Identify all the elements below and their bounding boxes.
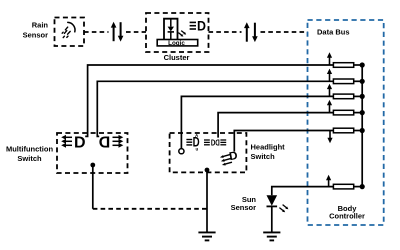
junction node row 4	[360, 110, 365, 115]
svg-text:D: D	[99, 134, 111, 151]
bidirectional arrows rain sensor/cluster	[111, 22, 124, 42]
sun sensor label	[231, 195, 257, 212]
wire row 3 (headlight switch contact to body controller)	[181, 96, 362, 148]
svg-text:D: D	[211, 139, 215, 148]
resistor R1	[333, 63, 353, 68]
junction node row 2	[360, 79, 365, 84]
high beam indicator in cluster	[190, 18, 206, 34]
junction node row 1	[360, 62, 365, 67]
wire row 2 (multifunction right lamp to body controller)	[97, 81, 362, 136]
mechanical link dashed wire	[93, 208, 207, 210]
resistor R2	[333, 79, 353, 84]
wire row 1 (multifunction left lamp to body controller)	[85, 65, 362, 136]
arrow up row 4	[327, 100, 332, 113]
junction node row 5	[360, 128, 365, 133]
svg-text:Controller: Controller	[329, 212, 365, 221]
wire row 6 (sun sensor to body controller)	[272, 187, 362, 196]
dashed wire cluster to data bus	[209, 31, 308, 33]
svg-text:Switch: Switch	[17, 154, 42, 163]
low beam symbol	[220, 150, 239, 166]
resistor R5	[333, 128, 353, 133]
headlight switch contact circle	[179, 149, 184, 154]
wire row 5 (headlight switch low beam to body controller)	[234, 131, 362, 152]
Body Controller label	[329, 204, 365, 221]
cluster logic base	[157, 40, 198, 46]
cluster box	[146, 13, 209, 52]
svg-text:D: D	[74, 134, 86, 151]
ground headlight switch	[198, 232, 215, 240]
resistor R6	[333, 184, 353, 189]
headlight switch box	[170, 133, 247, 172]
resistor R4	[333, 110, 353, 115]
multifunction high-beam lamp left	[61, 134, 85, 151]
sun sensor photodiode	[267, 195, 289, 232]
svg-text:D: D	[215, 139, 219, 148]
bidirectional arrows cluster/data bus	[244, 22, 258, 42]
parking light symbol	[186, 133, 199, 152]
data bus vertical rail	[361, 65, 363, 187]
cluster LED D1	[168, 20, 187, 40]
headlamp on/off symbol	[204, 139, 226, 148]
arrow up row 3	[327, 84, 332, 97]
arrow up row 2	[327, 69, 332, 82]
wire headlight switch to ground	[206, 170, 208, 232]
body controller / data bus box (blue)	[308, 20, 384, 225]
junction node row 3	[360, 94, 365, 99]
arrow down row 5	[327, 131, 332, 144]
svg-text:Sensor: Sensor	[231, 203, 257, 212]
svg-text:Switch: Switch	[251, 152, 276, 161]
headlight switch label	[251, 143, 286, 162]
svg-text:Headlight: Headlight	[251, 143, 286, 152]
ground sun sensor	[263, 232, 280, 240]
svg-text:u: u	[196, 147, 199, 152]
wire multifunction switch to mechanical link	[92, 165, 94, 209]
rain sensor icon	[62, 22, 75, 37]
svg-text:Data Bus: Data Bus	[317, 28, 350, 37]
multifunction high-beam lamp right (mirrored)	[99, 134, 124, 151]
svg-text:Rain: Rain	[32, 21, 49, 30]
rain sensor box	[55, 18, 85, 47]
svg-text:Sensor: Sensor	[23, 31, 49, 40]
svg-text:Cluster: Cluster	[164, 53, 190, 62]
dashed wire rain sensor to cluster	[84, 31, 146, 33]
junction node row 6	[360, 184, 365, 189]
rain sensor label	[23, 21, 49, 40]
wire row 4 (headlight switch beam selector to body controller)	[218, 113, 362, 138]
junction node multifunction switch	[90, 163, 95, 168]
cluster display stand	[164, 19, 178, 40]
arrow up row 1	[327, 52, 332, 65]
svg-text:Logic: Logic	[168, 40, 185, 47]
multifunction switch label	[6, 145, 53, 164]
arrow up row 6	[326, 175, 331, 187]
junction node headlight switch	[205, 168, 210, 173]
svg-text:D: D	[197, 18, 206, 34]
multifunction switch box	[57, 133, 128, 173]
svg-text:Multifunction: Multifunction	[6, 145, 53, 154]
resistor R3	[333, 94, 353, 99]
